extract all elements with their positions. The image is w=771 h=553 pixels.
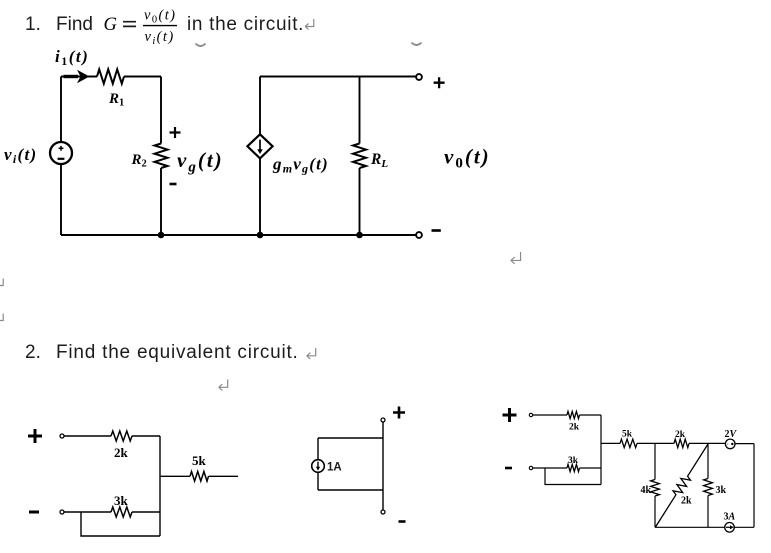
wire R2 branch lower <box>160 168 162 235</box>
svg-text:RL: RL <box>370 151 388 170</box>
svg-text:2k: 2k <box>675 430 686 440</box>
left margin mark 1 <box>0 279 3 286</box>
minus terminal label 2b <box>399 520 406 523</box>
svg-text:R1: R1 <box>108 91 124 109</box>
terminal 2c bottom <box>529 466 532 469</box>
svg-text:2k: 2k <box>681 496 692 507</box>
plus terminal label 2b <box>393 407 405 419</box>
minus terminal label 2c <box>505 467 512 470</box>
resistor RL <box>353 144 366 169</box>
wire 2a top right <box>132 435 160 437</box>
svg-text:vg(t): vg(t) <box>177 148 224 176</box>
wire 2b left lower <box>317 472 319 490</box>
terminal 2a bottom <box>60 510 64 514</box>
svg-text:1A: 1A <box>327 462 342 474</box>
svg-text:2k: 2k <box>569 423 580 433</box>
wire R2 branch upper <box>160 77 162 144</box>
resistor R1 <box>97 69 124 83</box>
resistor 4k <box>651 480 660 497</box>
svg-text:gmvg(t): gmvg(t) <box>272 155 329 176</box>
resistor R2 <box>155 144 168 169</box>
svg-text:4k: 4k <box>641 485 652 496</box>
node junction R2-bottom <box>158 232 165 239</box>
svg-text:Find: Find <box>56 14 93 35</box>
wire 3k branch upper <box>707 443 709 478</box>
wire 2c lower left <box>533 467 567 469</box>
proofing mark 2 <box>412 43 422 46</box>
wire 2c middle branch <box>601 442 620 444</box>
svg-text:2k: 2k <box>114 445 129 460</box>
svg-text:in the circuit.: in the circuit. <box>187 14 304 35</box>
plus terminal label 2c <box>503 408 517 422</box>
paragraph mark blank line <box>219 380 228 391</box>
resistor 5k (2a) <box>190 472 209 482</box>
wire RL branch upper <box>359 77 361 144</box>
wire 5k to node <box>637 442 674 444</box>
wire 2b right vertical <box>382 422 384 510</box>
left margin mark 2 <box>0 314 3 321</box>
node junction RL-bottom <box>356 232 363 239</box>
svg-text:i1(t): i1(t) <box>55 47 89 68</box>
wire dep-source lower <box>259 158 261 235</box>
wire 2a bypass <box>81 512 160 536</box>
minus terminal label 2a <box>29 511 39 514</box>
terminal 2a top <box>60 434 64 438</box>
source 3A <box>725 523 735 533</box>
wire 2c bypass <box>545 468 601 485</box>
node junction dep-source-bottom <box>257 232 264 239</box>
wire loop1 top <box>61 76 97 78</box>
wire 4k branch upper <box>654 443 656 479</box>
paragraph mark line1 <box>305 19 314 29</box>
svg-text:2V: 2V <box>725 429 738 440</box>
wire loop1 left upper <box>60 77 62 143</box>
wire 2a middle branch <box>160 475 190 477</box>
svg-text:v0(t): v0(t) <box>144 8 176 26</box>
source 2V <box>725 439 735 449</box>
resistor 5k (2c) <box>620 439 637 447</box>
minus output <box>432 229 441 232</box>
paragraph mark mid <box>511 252 521 264</box>
wire 2c top right <box>580 414 602 416</box>
svg-text:3A: 3A <box>724 512 736 523</box>
current arrow i1(t) <box>64 75 79 78</box>
plus vg <box>170 127 181 138</box>
terminal output bottom <box>416 232 422 238</box>
plus output <box>434 77 445 88</box>
wire 2a bottom right <box>132 511 160 513</box>
svg-text:2.: 2. <box>25 342 41 363</box>
resistor 2k (2c top-left) <box>567 411 580 418</box>
wire bottom rail 2c <box>655 526 725 528</box>
minus vg <box>170 183 177 186</box>
current source 1A <box>312 460 325 473</box>
wire dep-source upper <box>259 77 261 135</box>
resistor 3k (2c right) <box>704 479 713 496</box>
svg-text:G: G <box>104 15 117 35</box>
resistor 3k (2a) <box>111 507 132 517</box>
svg-text:v0(t): v0(t) <box>444 145 491 172</box>
terminal 2b top <box>381 418 385 422</box>
wire 2c left vertical <box>600 415 602 485</box>
svg-text:3k: 3k <box>716 485 727 496</box>
fraction bar <box>143 25 177 27</box>
dependent source gm vg(t) <box>247 134 272 158</box>
resistor 2k diagonal <box>656 444 709 527</box>
resistor 2k (2c top) <box>674 439 689 447</box>
terminal 2b bottom <box>381 510 385 514</box>
wire bottom right <box>734 526 754 528</box>
wire 2a middle right <box>209 475 239 477</box>
terminal 2c top <box>529 413 532 416</box>
wire loop2 top <box>260 76 416 78</box>
proofing mark 1 <box>196 44 206 47</box>
svg-text:5k: 5k <box>622 430 633 440</box>
resistor 3k (2c left) <box>567 464 580 471</box>
svg-text:1.: 1. <box>25 14 41 35</box>
svg-text:R2: R2 <box>131 152 147 170</box>
svg-text:3k: 3k <box>568 456 579 466</box>
wire 2b left upper <box>317 438 319 460</box>
wire 2b bottom <box>318 489 383 491</box>
wire 2c right vertical <box>753 444 755 528</box>
wire bottom rail <box>61 234 416 236</box>
wire 3k branch lower <box>707 496 709 528</box>
wire 2a top left <box>64 435 111 437</box>
wire 2a bottom left <box>64 511 111 513</box>
wire 2a right vertical <box>159 436 161 536</box>
svg-text:Find the equivalent circuit.: Find the equivalent circuit. <box>56 342 299 363</box>
svg-text:vi(t): vi(t) <box>145 29 175 47</box>
wire 2c top left <box>533 414 567 416</box>
wire 4k branch lower <box>654 496 656 527</box>
wire 2k to node2 <box>689 442 725 444</box>
resistor 2k (2a) <box>111 431 132 441</box>
terminal output top <box>416 74 422 80</box>
plus terminal label 2a <box>28 429 42 443</box>
svg-text:5k: 5k <box>192 453 207 468</box>
svg-text:3k: 3k <box>114 493 129 508</box>
source vi(t) <box>50 142 72 164</box>
wire R1 to R2 node <box>124 76 161 78</box>
svg-text:vi(t): vi(t) <box>4 145 37 166</box>
paragraph mark line2 <box>307 348 316 359</box>
wire 2b top <box>318 437 383 439</box>
wire 2c lower right <box>580 467 602 469</box>
wire loop1 left lower <box>60 164 62 235</box>
wire RL branch lower <box>359 168 361 235</box>
wire 2V to right edge <box>735 443 754 445</box>
